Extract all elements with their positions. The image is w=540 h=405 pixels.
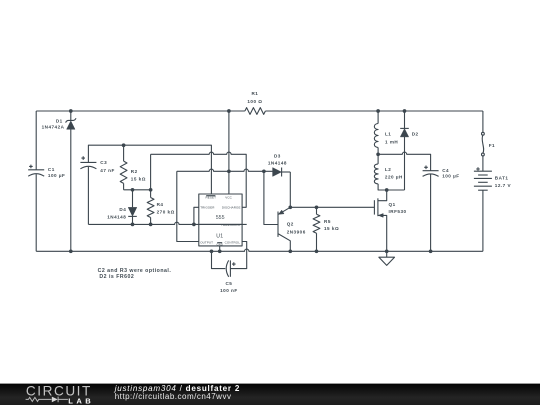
wire top rail with resistor R1 inline [36,110,245,112]
footer black bar [0,384,540,405]
svg-text:Q1: Q1 [389,202,396,207]
svg-text:DISCHARGE: DISCHARGE [222,205,241,209]
svg-text:LAB: LAB [68,397,94,405]
diode D2 [404,111,406,128]
resistor R5 [316,207,318,214]
resistor R1 [245,108,266,115]
svg-text:100 Ω: 100 Ω [247,99,262,104]
node: output line junctions [227,169,231,173]
svg-text:R4: R4 [157,202,164,207]
resistor R2 [123,145,125,161]
svg-text:D4: D4 [119,207,126,212]
svg-text:Q2: Q2 [287,221,294,226]
svg-text:C1: C1 [48,167,55,172]
wire D3 cathode down to Q2 emitter [289,172,291,207]
svg-text:C5: C5 [225,281,232,286]
wire TRIGGER stub [194,207,199,224]
wire gate line Q2 emitter to Q1 gate [290,206,374,208]
svg-text:F1: F1 [489,143,495,148]
svg-text:100 nF: 100 nF [220,288,238,293]
svg-text:TRIGGER: TRIGGER [200,205,215,209]
svg-text:12.7 V: 12.7 V [495,183,512,188]
wire Q2 base from D3 anode [264,171,278,224]
node: threshold junctions [131,223,135,227]
wire bottom rail [36,249,483,251]
svg-text:1N4742A: 1N4742A [42,125,65,130]
svg-text:L1: L1 [385,131,391,136]
logo diode [52,397,58,403]
transistor Q1 IRF530 mosfet [373,200,375,214]
svg-text:1N4148: 1N4148 [268,161,287,166]
diode D4 [132,190,134,208]
wire R2 bottom to R4 top [124,189,151,191]
svg-text:D2 is FR602: D2 is FR602 [99,274,134,280]
ground [386,251,388,257]
svg-text:15 kΩ: 15 kΩ [324,226,339,231]
svg-text:1N4148: 1N4148 [107,215,126,220]
svg-text:D1: D1 [56,119,63,124]
inductor L1 [377,111,379,124]
svg-text:IRF530: IRF530 [389,209,407,214]
inductor L2 [377,154,379,164]
svg-text:100 µF: 100 µF [442,173,459,178]
svg-text:R1: R1 [251,91,258,96]
svg-text:U1: U1 [216,233,223,239]
node: D1 bottom junction [69,249,73,253]
svg-text:15 kΩ: 15 kΩ [131,177,146,182]
svg-text:270 kΩ: 270 kΩ [157,209,175,214]
svg-text:VCC: VCC [225,196,232,200]
logo resistor zigzag [26,397,52,401]
svg-text:555: 555 [216,215,225,221]
wire L1/L2 node to C4 [378,152,431,171]
node Q1 drain junction [385,188,389,192]
diode D1 zener branch [70,111,72,120]
svg-text:CONTROL: CONTROL [225,241,241,245]
svg-text:C4: C4 [442,168,449,173]
svg-text:http://circuitlab.com/cn47wvv: http://circuitlab.com/cn47wvv [115,392,232,401]
transistor Q2 2N3906 [277,212,279,237]
wire VCC vertical from top rail to U1 [228,111,230,194]
capacitor C4 [423,170,439,172]
wire top rail right of R1 [265,110,483,112]
resistor R4 [150,154,152,197]
fuse F1 [482,111,484,132]
svg-text:BAT1: BAT1 [495,176,509,181]
battery BAT1 [482,156,484,171]
wire THRESHOLD line [88,222,246,224]
wire left rail upper [35,111,37,170]
node: bottom rail junction dots [210,249,214,253]
svg-text:R5: R5 [324,219,331,224]
wire threshold through box [199,223,242,225]
op-amp U1 555 timer box [199,194,242,246]
wire DISCHARGE line from R4 top [151,152,247,207]
svg-text:1 mH: 1 mH [385,139,398,144]
capacitor C3 [80,161,96,163]
svg-text:L2: L2 [385,167,391,172]
svg-text:100 µF: 100 µF [48,173,65,178]
svg-text:OUTPUT: OUTPUT [200,241,213,245]
svg-text:2N3906: 2N3906 [287,230,306,235]
diode D3 [273,168,282,177]
svg-text:47 nF: 47 nF [100,168,115,173]
svg-text:D2: D2 [412,132,419,137]
wire GND pin stub [219,246,221,251]
wire left rail lower [35,174,37,251]
svg-text:D3: D3 [274,153,281,158]
wire OUTPUT feedback loop [177,171,199,241]
svg-text:R2: R2 [131,169,138,174]
svg-text:220 µH: 220 µH [385,175,403,180]
node R2 top [122,143,126,147]
wire C3/R2 top line to RESET [88,145,211,194]
node: top rail junction dots [69,109,73,113]
capacitor C5 [212,251,226,268]
svg-text:C3: C3 [100,160,107,165]
capacitor C1 [28,169,44,171]
